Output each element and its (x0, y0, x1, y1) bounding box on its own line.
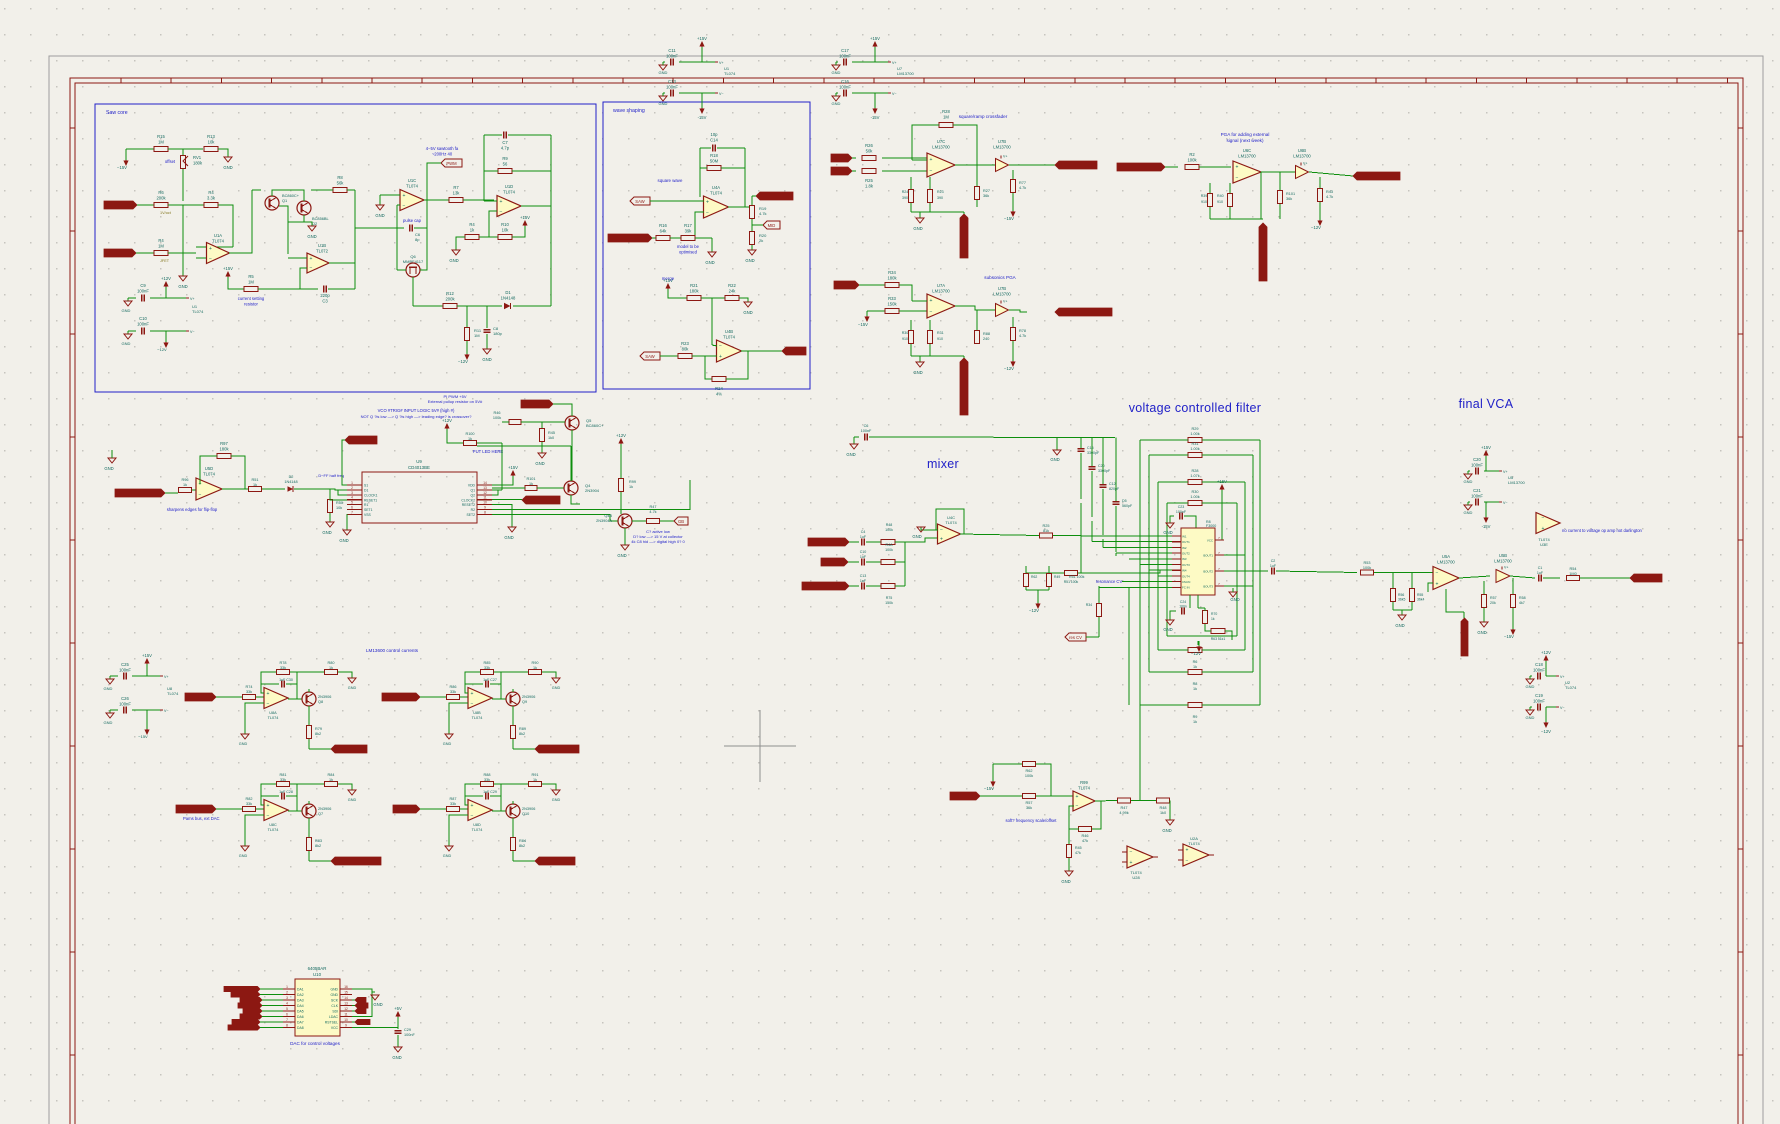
svg-text:8k2: 8k2 (315, 732, 321, 736)
svg-text:R15: R15 (157, 134, 165, 139)
svg-text:VDD: VDD (468, 484, 476, 488)
svg-text:R4: R4 (469, 222, 475, 227)
svg-text:100nF: 100nF (137, 321, 149, 326)
svg-text:Q7: Q7 (318, 812, 323, 816)
svg-text:1k: 1k (533, 778, 537, 782)
svg-text:R89: R89 (519, 727, 526, 731)
svg-text:R62: R62 (1026, 769, 1033, 773)
svg-text:TL074: TL074 (268, 828, 279, 832)
svg-text:R62: R62 (1031, 575, 1037, 579)
svg-text:-15V: -15V (698, 115, 707, 120)
svg-text:+15V: +15V (697, 36, 707, 41)
svg-text:81k: 81k (1043, 529, 1049, 533)
svg-text:15: 15 (344, 991, 348, 995)
svg-text:U5D: U5D (205, 466, 213, 471)
svg-text:2N3904: 2N3904 (585, 488, 600, 493)
svg-text:U7C: U7C (937, 139, 945, 144)
svg-text:100nF: 100nF (1176, 510, 1187, 514)
svg-text:100k: 100k (493, 416, 501, 420)
svg-text:−15V: −15V (117, 165, 127, 170)
svg-text:R85: R85 (484, 661, 491, 665)
svg-text:R12: R12 (446, 291, 454, 296)
svg-text:36k: 36k (1026, 806, 1032, 810)
svg-text:D1: D1 (505, 290, 511, 295)
svg-text:R51: R51 (252, 478, 259, 482)
svg-text:1k: 1k (629, 485, 633, 489)
svg-text:180k: 180k (219, 446, 229, 451)
svg-text:R84: R84 (519, 839, 526, 843)
svg-text:C20: C20 (1098, 464, 1105, 468)
svg-text:GND: GND (373, 1002, 382, 1007)
svg-text:14: 14 (483, 481, 487, 485)
svg-text:33k: 33k (246, 690, 252, 694)
svg-text:GND: GND (1061, 879, 1070, 884)
svg-text:+: + (930, 298, 933, 304)
svg-text:2N3906: 2N3906 (318, 695, 331, 699)
svg-text:External pullup resistor on 5V: External pullup resistor on 5V# (428, 399, 483, 404)
svg-text:U3E: U3E (1540, 542, 1548, 547)
svg-text:R4A: R4A (886, 543, 894, 547)
svg-text:U1C: U1C (408, 178, 416, 183)
svg-text:R57: R57 (1026, 801, 1033, 805)
svg-text:D2: D2 (289, 475, 294, 479)
svg-text:U6B: U6B (1298, 148, 1306, 153)
svg-text:C13: C13 (860, 574, 867, 578)
svg-text:1k: 1k (253, 483, 257, 487)
svg-text:V+: V+ (164, 675, 169, 679)
svg-text:LM13700: LM13700 (1494, 558, 1512, 563)
svg-text:RESET1: RESET1 (364, 498, 377, 502)
svg-text:−: − (1076, 804, 1079, 810)
svg-text:soft? frequency scale/offset: soft? frequency scale/offset (1006, 818, 1058, 823)
svg-text:R99: R99 (1080, 780, 1088, 785)
svg-text:−: − (940, 527, 943, 533)
svg-text:R2: R2 (471, 508, 475, 512)
svg-text:−: − (1542, 515, 1545, 521)
svg-text:180k: 180k (689, 288, 699, 293)
svg-text:−: − (706, 210, 709, 216)
svg-text:1k: 1k (1193, 687, 1197, 691)
svg-text:GND: GND (846, 452, 855, 457)
svg-text:5: 5 (286, 1007, 288, 1011)
svg-text:R51 100k: R51 100k (1064, 580, 1079, 584)
svg-text:−12V: −12V (1004, 366, 1014, 371)
svg-text:TL074: TL074 (167, 691, 179, 696)
svg-text:+12V: +12V (616, 433, 626, 438)
svg-text:C25: C25 (121, 662, 129, 667)
svg-text:U8A: U8A (269, 711, 277, 715)
svg-text:−15V: −15V (1004, 216, 1014, 221)
svg-text:10: 10 (483, 501, 487, 505)
svg-text:1k: 1k (529, 482, 533, 486)
svg-text:+: + (1130, 860, 1133, 866)
svg-text:80k: 80k (682, 346, 690, 351)
svg-text:R17: R17 (684, 223, 692, 228)
svg-text:V−: V− (719, 92, 724, 96)
svg-text:4.7k: 4.7k (759, 211, 767, 216)
svg-text:C9: C9 (140, 283, 146, 288)
svg-text:optimised: optimised (679, 249, 698, 254)
svg-text:R87: R87 (450, 797, 457, 801)
svg-text:GND: GND (832, 101, 841, 106)
svg-text:Q10: Q10 (522, 812, 529, 816)
svg-text:GND: GND (104, 720, 113, 725)
svg-text:U4A: U4A (712, 185, 720, 190)
svg-text:C1: C1 (1538, 566, 1543, 570)
svg-text:GND: GND (1163, 530, 1172, 535)
svg-text:10p: 10p (711, 132, 719, 137)
svg-text:SET1: SET1 (364, 508, 373, 512)
svg-text:10k: 10k (336, 506, 342, 510)
svg-text:R99: R99 (629, 480, 636, 484)
svg-text:R45: R45 (548, 431, 555, 435)
svg-text:GND: GND (1464, 479, 1473, 484)
svg-text:IN4: IN4 (1182, 569, 1187, 573)
svg-text:U28: U28 (1132, 875, 1140, 880)
svg-text:R97: R97 (220, 441, 228, 446)
svg-text:64k: 64k (660, 228, 668, 233)
svg-text:TL074: TL074 (945, 520, 957, 525)
svg-text:1V/oct: 1V/oct (160, 211, 172, 215)
svg-text:GND: GND (1477, 630, 1486, 635)
svg-text:U8B: U8B (473, 711, 481, 715)
svg-text:2N3906: 2N3906 (522, 807, 535, 811)
svg-text:GND: GND (339, 538, 348, 543)
svg-text:100nF: 100nF (1471, 493, 1483, 498)
svg-text:TL074: TL074 (472, 828, 483, 832)
svg-text:R48: R48 (886, 523, 893, 527)
svg-text:1.07k: 1.07k (1190, 474, 1199, 478)
svg-text:2N3906: 2N3906 (522, 695, 535, 699)
svg-text:V+: V+ (1003, 155, 1007, 159)
svg-text:JFET: JFET (160, 259, 170, 263)
svg-text:R23: R23 (681, 341, 689, 346)
svg-text:DA8: DA8 (297, 1026, 304, 1030)
svg-text:R34: R34 (1086, 603, 1092, 607)
svg-text:SCK: SCK (331, 999, 339, 1003)
svg-text:1k: 1k (329, 778, 333, 782)
svg-text:Q9: Q9 (522, 700, 527, 704)
svg-text:PWM: PWM (446, 161, 457, 166)
svg-text:GND: GND (745, 258, 754, 263)
svg-text:GND: GND (449, 258, 458, 263)
svg-text:R23: R23 (937, 190, 944, 194)
svg-text:+15V: +15V (870, 36, 880, 41)
svg-text:LM13700: LM13700 (1293, 153, 1311, 158)
svg-text:3.3k: 3.3k (207, 195, 216, 200)
svg-text:SDI: SDI (332, 1010, 338, 1014)
svg-text:4.99k: 4.99k (1119, 811, 1128, 815)
svg-text:TL074: TL074 (1188, 841, 1200, 846)
svg-text:C4: C4 (861, 530, 866, 534)
svg-text:V+: V+ (892, 61, 897, 65)
svg-text:R48: R48 (1160, 806, 1167, 810)
svg-text:100n: 100n (1179, 605, 1187, 609)
svg-text:GND: GND (743, 310, 752, 315)
svg-text:4.7p: 4.7p (501, 145, 510, 150)
svg-text:240: 240 (983, 337, 989, 341)
svg-text:R40: R40 (1217, 194, 1224, 198)
svg-text:100k: 100k (885, 528, 893, 532)
svg-text:14: 14 (344, 996, 348, 1000)
svg-text:R53: R53 (1364, 561, 1371, 565)
svg-text:V+: V+ (1504, 566, 1508, 570)
svg-text:TL072: TL072 (316, 248, 329, 253)
svg-text:36k4: 36k4 (1417, 598, 1424, 602)
svg-text:8k2: 8k2 (519, 732, 525, 736)
svg-text:R84: R84 (328, 773, 335, 777)
svg-text:200k: 200k (156, 195, 166, 200)
svg-text:R54: R54 (1570, 567, 1577, 571)
svg-text:1k: 1k (1211, 617, 1215, 621)
svg-text:no current to voltage op amp n: no current to voltage op amp not darling… (1562, 528, 1643, 533)
svg-text:R101: R101 (526, 477, 535, 481)
svg-text:GND: GND (705, 260, 714, 265)
svg-text:R51 100k: R51 100k (1069, 575, 1085, 579)
svg-text:GND: GND (504, 535, 513, 540)
svg-text:100k: 100k (1363, 566, 1371, 570)
svg-text:R83: R83 (315, 839, 322, 843)
svg-text:GND: GND (104, 466, 113, 471)
svg-text:D−FF half freq: D−FF half freq (318, 473, 344, 478)
svg-text:−15V: −15V (984, 786, 994, 791)
svg-text:U8D: U8D (473, 823, 481, 827)
svg-text:100nF: 100nF (119, 701, 131, 706)
svg-text:DA5: DA5 (297, 1010, 304, 1014)
svg-text:R58: R58 (1519, 596, 1526, 600)
svg-text:GND: GND (482, 357, 491, 362)
svg-text:56k: 56k (337, 180, 345, 185)
svg-text:C14: C14 (710, 137, 718, 142)
svg-text:V+: V+ (190, 297, 195, 301)
svg-text:C16: C16 (841, 79, 849, 84)
svg-text:subsonics PGA: subsonics PGA (984, 275, 1016, 280)
svg-text:LDAC: LDAC (329, 1015, 339, 1019)
svg-text:LM13700: LM13700 (1238, 153, 1256, 158)
svg-text:4.7k: 4.7k (1019, 334, 1026, 338)
svg-text:C19: C19 (1535, 693, 1543, 698)
svg-text:CLOCK1: CLOCK1 (364, 493, 378, 497)
svg-text:20k: 20k (1490, 601, 1496, 605)
svg-text:10k: 10k (208, 139, 216, 144)
svg-text:−: − (267, 813, 270, 819)
svg-text:CLOCK2: CLOCK2 (461, 498, 475, 502)
svg-text:1.00k: 1.00k (1190, 447, 1199, 451)
svg-text:+: + (310, 256, 313, 262)
svg-text:+: + (471, 803, 474, 809)
svg-text:R46: R46 (1082, 834, 1089, 838)
svg-text:4: 4 (286, 1002, 288, 1006)
svg-text:+15V: +15V (223, 266, 233, 271)
svg-text:1M: 1M (474, 333, 480, 338)
svg-text:13: 13 (344, 1002, 348, 1006)
svg-text:BOUT2: BOUT2 (1203, 570, 1213, 574)
svg-text:TL074: TL074 (192, 309, 204, 314)
svg-text:−12V: −12V (458, 359, 468, 364)
svg-text:GND: GND (552, 798, 561, 802)
svg-text:R5: R5 (248, 274, 254, 279)
svg-text:R96: R96 (182, 478, 189, 482)
svg-text:TL074: TL074 (472, 716, 483, 720)
svg-text:Q2: Q2 (312, 221, 317, 226)
svg-text:C10: C10 (860, 550, 867, 554)
svg-text:R90: R90 (532, 661, 539, 665)
svg-text:+15V: +15V (663, 278, 673, 283)
svg-text:6: 6 (286, 1013, 288, 1017)
svg-text:10k: 10k (502, 227, 510, 232)
svg-text:R88: R88 (983, 332, 990, 336)
svg-text:11: 11 (344, 1013, 348, 1017)
svg-text:2N3906: 2N3906 (318, 807, 331, 811)
svg-text:+: + (209, 246, 212, 252)
svg-text:+12V: +12V (161, 276, 171, 281)
svg-text:TL074: TL074 (724, 71, 736, 76)
svg-text:TL074: TL074 (406, 183, 419, 188)
svg-text:R10: R10 (501, 222, 509, 227)
svg-text:FC IN: FC IN (1182, 586, 1190, 590)
svg-text:U7B: U7B (998, 139, 1006, 144)
svg-text:100nF: 100nF (1533, 667, 1545, 672)
svg-text:V−: V− (1560, 706, 1565, 710)
svg-text:R24: R24 (715, 386, 723, 391)
svg-text:U8C: U8C (269, 823, 277, 827)
svg-text:D1: D1 (364, 489, 368, 493)
svg-text:U7A: U7A (937, 283, 945, 288)
svg-text:180p: 180p (493, 331, 503, 336)
svg-text:TL074: TL074 (1078, 785, 1091, 790)
svg-text:36k: 36k (1286, 197, 1292, 201)
svg-text:100k: 100k (1025, 774, 1033, 778)
svg-text:GND: GND (443, 742, 452, 746)
svg-text:U10: U10 (313, 972, 322, 977)
svg-text:GND: GND (239, 854, 248, 858)
svg-text:model to be: model to be (677, 244, 700, 249)
svg-text:33k: 33k (280, 666, 286, 670)
svg-text:R24: R24 (902, 190, 909, 194)
svg-text:DA6: DA6 (297, 1015, 304, 1019)
svg-text:7: 7 (286, 1018, 288, 1022)
svg-text:−15V: −15V (138, 734, 148, 739)
svg-text:4: 4 (351, 496, 353, 500)
svg-text:4−5V sawtooth fa: 4−5V sawtooth fa (426, 146, 459, 151)
svg-text:5: 5 (351, 501, 353, 505)
svg-text:200k: 200k (445, 296, 455, 301)
svg-text:GND: GND (1050, 457, 1059, 462)
svg-text:R74: R74 (246, 685, 253, 689)
svg-text:DA2: DA2 (297, 993, 304, 997)
svg-text:16: 16 (344, 985, 348, 989)
svg-text:R39: R39 (1201, 194, 1208, 198)
svg-text:+: + (1542, 526, 1545, 532)
svg-text:4k C8 hid —> digital high 0? 0: 4k C8 hid —> digital high 0? 0 (631, 539, 685, 544)
svg-text:DA7: DA7 (297, 1021, 304, 1025)
svg-text:9: 9 (345, 1024, 347, 1028)
svg-text:IN2: IN2 (1182, 546, 1187, 550)
svg-text:C3: C3 (322, 298, 328, 303)
svg-text:2: 2 (286, 991, 288, 995)
svg-text:R30: R30 (1192, 490, 1199, 494)
svg-text:Q1: Q1 (282, 198, 287, 203)
svg-text:PGA for adding external: PGA for adding external (1221, 132, 1270, 137)
svg-text:R86: R86 (450, 685, 457, 689)
svg-text:R6: R6 (158, 190, 164, 195)
svg-text:Q4B: Q4B (604, 514, 612, 518)
svg-text:R91: R91 (532, 773, 539, 777)
svg-text:1uF C28: 1uF C28 (279, 790, 293, 794)
svg-text:390: 390 (902, 196, 908, 200)
svg-text:mixer: mixer (927, 457, 959, 471)
svg-text:C7: C7 (502, 140, 508, 145)
svg-text:OUT2: OUT2 (1182, 552, 1190, 556)
svg-text:−12V: −12V (1191, 651, 1201, 656)
svg-text:1uF: 1uF (860, 579, 867, 583)
svg-text:GND: GND (307, 234, 316, 239)
svg-text:GND: GND (659, 70, 668, 75)
svg-text:D5: D5 (1122, 499, 1127, 503)
svg-text:CM-IN: CM-IN (1182, 580, 1190, 584)
svg-text:−12V: −12V (1311, 225, 1321, 230)
svg-text:DA1: DA1 (297, 988, 304, 992)
svg-text:VCC: VCC (1207, 539, 1213, 543)
svg-text:−12V: −12V (1029, 608, 1039, 613)
svg-text:1M: 1M (158, 139, 164, 144)
svg-text:LM13700: LM13700 (932, 144, 950, 149)
svg-text:R75: R75 (886, 596, 893, 600)
svg-text:GND: GND (122, 341, 131, 346)
svg-text:TL074: TL074 (503, 189, 516, 194)
svg-text:100nF: 100nF (1471, 462, 1483, 467)
svg-text:R49: R49 (1054, 575, 1060, 579)
svg-text:C11: C11 (668, 48, 676, 53)
svg-text:150k: 150k (885, 601, 893, 605)
svg-text:−12V: −12V (157, 347, 167, 352)
svg-text:R63 51k1: R63 51k1 (1211, 637, 1226, 641)
svg-text:+15V: +15V (1481, 445, 1491, 450)
svg-text:C26: C26 (121, 696, 129, 701)
svg-text:100nF: 100nF (1533, 698, 1545, 703)
svg-text:+15V: +15V (508, 465, 518, 470)
svg-text:100nF: 100nF (119, 667, 131, 672)
svg-text:RESET2: RESET2 (462, 503, 475, 507)
svg-text:OUT1: OUT1 (1182, 540, 1190, 544)
svg-text:R34: R34 (888, 270, 896, 275)
svg-text:GND: GND (1230, 597, 1239, 602)
svg-text:R78: R78 (1019, 329, 1026, 333)
svg-text:GND: GND (1162, 828, 1171, 833)
svg-text:GND: GND (832, 70, 841, 75)
svg-text:GND: GND (912, 534, 921, 539)
svg-text:R28: R28 (1192, 469, 1199, 473)
svg-text:24k: 24k (729, 288, 737, 293)
svg-text:+: + (1436, 581, 1439, 587)
svg-text:RSTSEL: RSTSEL (325, 1021, 338, 1025)
svg-text:GND: GND (1464, 510, 1473, 515)
svg-text:1uF: 1uF (860, 535, 867, 539)
svg-text:560pF: 560pF (1122, 504, 1133, 508)
svg-text:+: + (1186, 848, 1189, 854)
svg-text:910: 910 (1217, 200, 1223, 204)
svg-text:7: 7 (351, 510, 353, 514)
svg-text:+: + (1236, 165, 1239, 171)
svg-text:CLK: CLK (331, 1004, 338, 1008)
svg-text:R79: R79 (315, 727, 322, 731)
svg-text:TL074: TL074 (1565, 685, 1577, 690)
svg-text:R31: R31 (937, 331, 944, 335)
svg-text:6405BAR: 6405BAR (308, 966, 327, 971)
svg-text:−: − (209, 256, 212, 262)
svg-text:R26: R26 (865, 143, 873, 148)
svg-text:GND: GND (348, 798, 357, 802)
